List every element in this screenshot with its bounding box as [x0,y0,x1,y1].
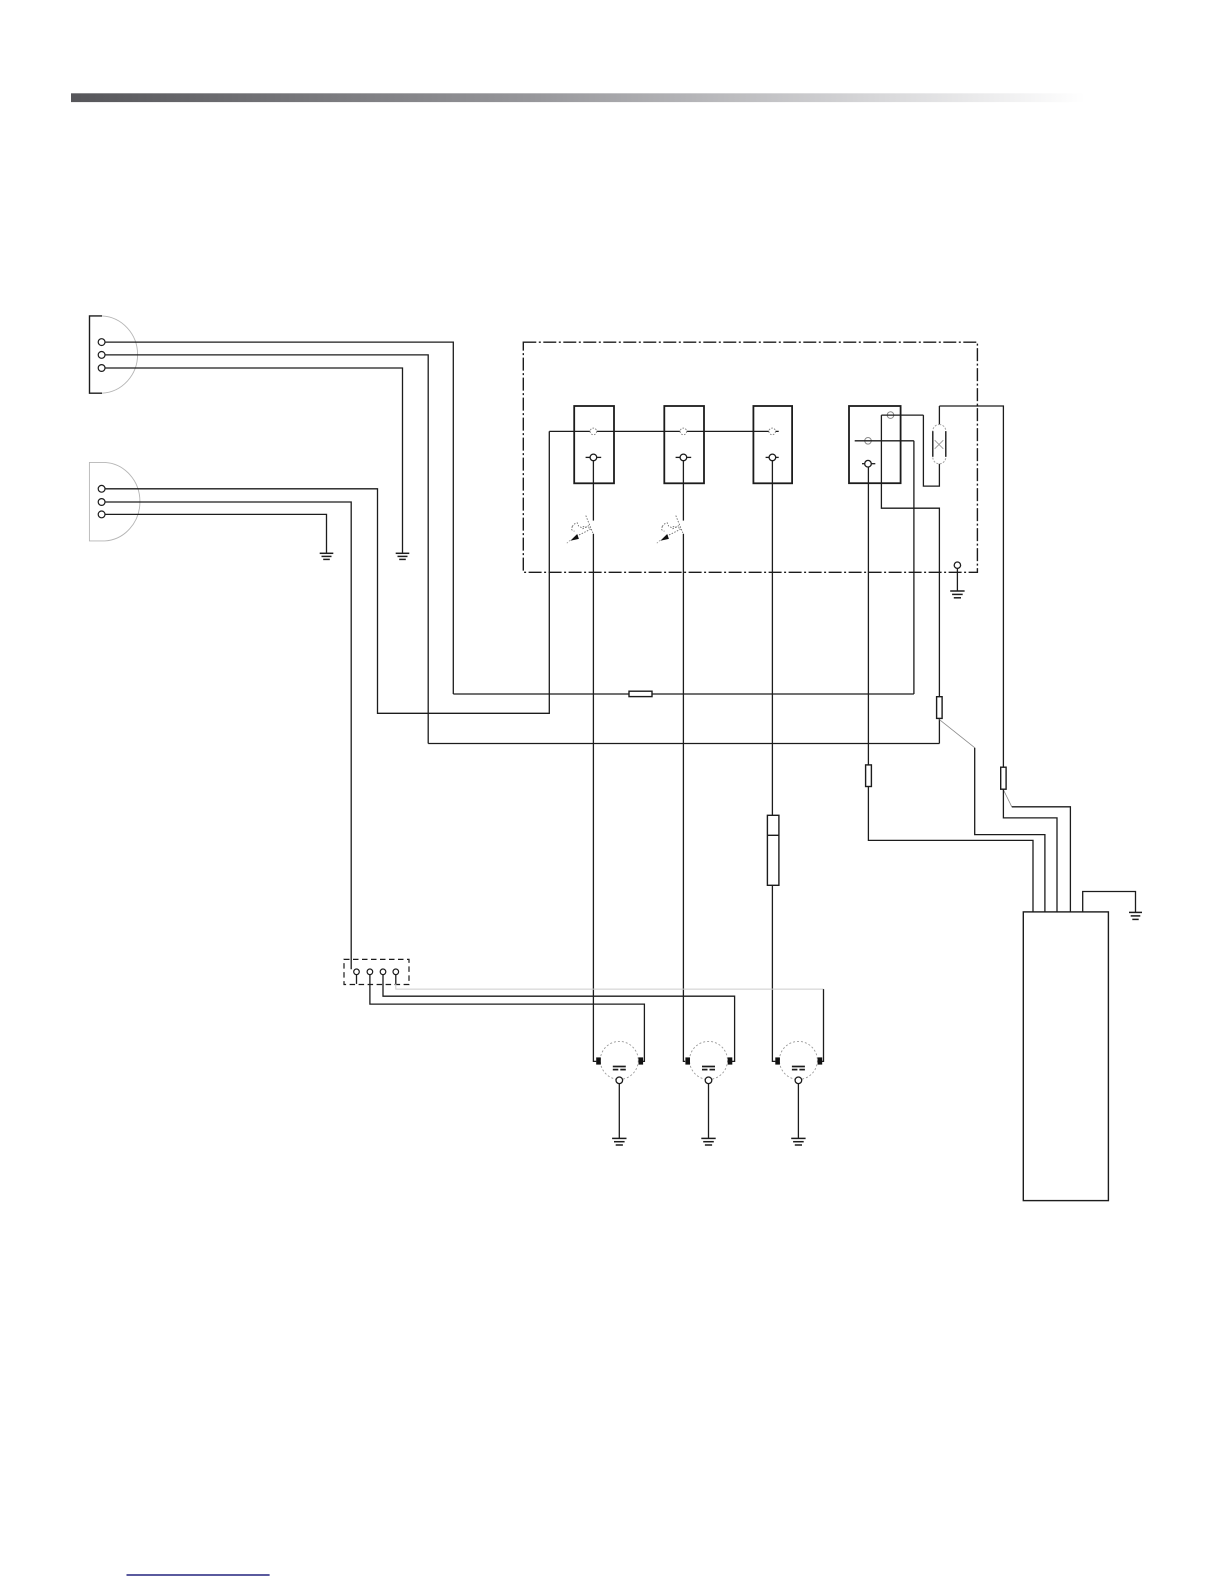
connector J2 pin 2 [98,499,105,506]
switch S3 body [753,406,792,483]
switch S2 body [664,406,704,483]
switch S4 body [849,406,901,483]
connector J1 pin 1 [98,339,105,346]
S2 upper terminal [680,428,687,435]
box pin 5 wire to ground [1083,892,1136,913]
S4 middle wire [855,441,914,694]
motor M3 [775,1041,822,1145]
wire F5 to motor M3 [772,885,775,1061]
control module box [1023,912,1108,1201]
wire J1-3 to ground [105,368,403,553]
S4 upper terminal [887,412,894,419]
S2 lower terminal [676,454,692,461]
tap wire F2 to box pin 4 [1003,790,1011,807]
connector J2 shell [89,462,140,541]
motor M2 [685,1041,732,1145]
tap wire F1 to box pin 2 [939,720,974,748]
bus wire to switch upper terminals [549,430,778,432]
connector J1 pin 2 [98,352,105,359]
wire S1 to motor M1 (with blade gap) [593,461,596,1062]
S4 upper branch down-left [881,415,939,743]
fuse F1 [937,697,943,719]
ground G5 [1129,912,1142,919]
S4 upper terminal wire loop to lamp [881,414,923,416]
fuse F3 [866,765,872,787]
blade actuator icon under S1 [567,516,593,544]
motor M1 [596,1041,643,1145]
tap wire F2 to box pin 3 [1003,789,1057,912]
fuse F5 [767,815,779,885]
fuse F2 [1001,767,1006,789]
ground G2 [320,553,334,559]
blade actuator icon under S2 [657,516,683,544]
connector J1 shell bracket [90,316,103,393]
wire F3 to box pin 1 [868,787,1033,912]
S3 upper terminal [769,428,776,435]
terminal strip TB1 dashed outline [344,959,409,984]
S4 lower terminal [862,460,875,467]
dashed control panel box [523,342,977,572]
J1-2 wire joins F1 bottom [428,743,939,745]
S3 lower terminal [766,454,779,461]
TB1 terminal 2 [367,969,644,1061]
wire J1-2 horizontal [105,355,428,744]
TB1 terminal 3 [380,969,734,1061]
wire J2-3 to ground [105,514,327,552]
ground G1 [396,553,410,559]
fuse F4 [629,691,652,696]
TB1 terminal 1 [354,969,360,984]
TB1 terminal 4 [393,969,399,984]
lamp top wire to right rail [939,406,1003,767]
wire S3 down to fuse F5 [771,461,773,816]
chassis ground node inside panel [950,562,964,598]
wire J2-2 [105,502,351,969]
switch S1 body [574,406,614,483]
connector J1 pin 3 [98,365,105,372]
connector J1 arc [102,316,138,393]
S4 middle terminal [865,438,872,445]
faint wire terminal 4 to motor M3 [396,984,824,989]
S1 lower terminal [586,454,602,461]
wire J2-1 [105,431,549,713]
wire S2 to motor M2 (with blade gap) [683,461,685,1062]
pin1 feed horizontal with fuse F4 [453,693,914,695]
wire down to M3 right brush [822,989,824,1061]
S4 lower wire to fuse F3 [867,467,869,765]
wire J1-1 horizontal [105,342,453,694]
footer link underline [127,1574,270,1576]
connector J2 pin 3 [98,511,105,518]
lamp DS1 [933,406,946,464]
connector J2 pin 1 [98,485,105,492]
header gradient rule [71,93,1085,102]
S1 upper terminal [590,428,597,435]
